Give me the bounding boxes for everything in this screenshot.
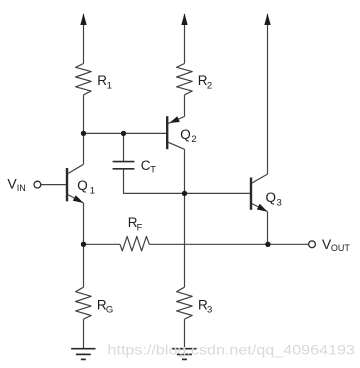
node VOUT junction dot xyxy=(265,242,270,247)
label Q3 xyxy=(266,190,282,208)
wire R3 to ground xyxy=(184,319,186,349)
label R3 xyxy=(198,297,212,315)
wire capacitor top lead xyxy=(123,133,125,161)
power arrow above R1 xyxy=(80,13,86,25)
wire R1 bottom to node A xyxy=(83,95,85,134)
wire Q2 collector down to node B xyxy=(184,149,186,193)
svg-text:1: 1 xyxy=(107,81,112,92)
svg-text:Q: Q xyxy=(77,178,88,193)
transistor Q3 base bar xyxy=(250,178,252,210)
node C junction dot xyxy=(81,242,86,247)
svg-text:2: 2 xyxy=(191,134,196,145)
svg-text:T: T xyxy=(150,165,156,176)
resistor R3 xyxy=(177,287,193,319)
wire RG to ground xyxy=(83,319,85,349)
svg-text:3: 3 xyxy=(207,305,212,316)
resistor R2 xyxy=(177,64,193,95)
resistor RG xyxy=(76,287,92,319)
label Q1 xyxy=(77,178,95,196)
svg-text:OUT: OUT xyxy=(331,243,351,253)
label RF xyxy=(128,215,143,233)
resistor R1 xyxy=(76,64,92,95)
resistor RF xyxy=(120,236,149,251)
transistor Q1 base bar xyxy=(66,168,68,201)
wire VIN to Q1 base xyxy=(41,184,66,186)
wire node B down to R3 xyxy=(184,193,186,287)
capacitor CT xyxy=(113,162,135,169)
svg-text:IN: IN xyxy=(17,183,26,193)
label VIN xyxy=(7,176,25,193)
svg-text:Q: Q xyxy=(266,190,277,205)
wire Q3 collector diagonal xyxy=(252,174,268,183)
Q3 emitter arrowhead xyxy=(257,204,268,212)
label CT xyxy=(141,158,156,176)
label R1 xyxy=(97,73,112,91)
Q2 emitter arrowhead (PNP, points to bar) xyxy=(169,116,180,123)
svg-text:1: 1 xyxy=(90,185,95,196)
label VOUT xyxy=(322,236,351,253)
svg-text:G: G xyxy=(106,305,113,316)
wire Q3 emitter diagonal xyxy=(252,204,268,212)
node A junction dot xyxy=(81,131,86,136)
wire Q2 collector diagonal xyxy=(168,142,184,149)
wire VCC lead above R1 xyxy=(83,14,85,64)
power arrow above R2 xyxy=(181,13,187,25)
wire R2 bottom to Q2 emitter xyxy=(184,95,186,117)
wire RF to VOUT node xyxy=(149,243,308,245)
node CT-top junction dot xyxy=(121,131,126,136)
wire Q3 emitter down to VOUT node xyxy=(267,212,269,245)
wire Q3 collector up to VCC arrow xyxy=(267,14,269,174)
VOUT terminal circle xyxy=(309,241,316,248)
svg-text:R: R xyxy=(97,73,107,88)
power arrow above Q3 collector xyxy=(264,13,270,25)
wire Q2 emitter diagonal xyxy=(168,117,184,124)
ground under RG xyxy=(71,349,95,360)
label RG xyxy=(97,297,113,315)
label Q2 xyxy=(180,127,196,145)
svg-text:3: 3 xyxy=(277,197,282,208)
wire node C down to RG xyxy=(83,244,85,287)
label R2 xyxy=(198,73,212,91)
Q1 emitter arrowhead xyxy=(73,195,84,203)
transistor Q2 base bar xyxy=(166,116,168,149)
wire node A to Q2 base xyxy=(84,132,167,134)
wire node C to RF xyxy=(84,243,121,245)
wire Q1 collector up to node A xyxy=(83,133,85,164)
wire VCC lead above R2 xyxy=(184,14,186,64)
ground under R3 xyxy=(172,349,196,360)
wire capacitor bottom lead xyxy=(124,169,185,194)
svg-text:https://blog.csdn.net/qq_40964: https://blog.csdn.net/qq_40964193 xyxy=(108,343,356,358)
node B junction dot xyxy=(182,191,187,196)
svg-text:2: 2 xyxy=(207,80,212,91)
VIN terminal circle xyxy=(34,181,41,188)
wire Q1 collector diagonal xyxy=(68,164,84,173)
wire Q1 emitter down to node C xyxy=(83,203,85,244)
wire node B to Q3 base xyxy=(185,192,251,194)
wire Q1 emitter diagonal xyxy=(68,195,84,203)
svg-text:Q: Q xyxy=(180,127,191,142)
svg-text:F: F xyxy=(137,223,143,234)
